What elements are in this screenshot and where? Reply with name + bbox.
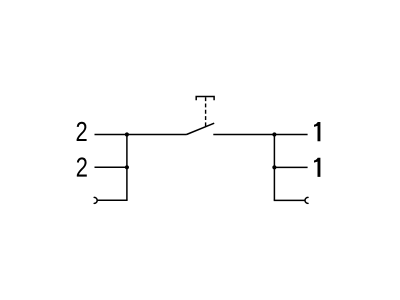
wire: left vertical bus	[126, 135, 128, 201]
pushbutton actuator	[196, 97, 214, 101]
pin label 2 (top left)	[77, 122, 87, 141]
wire: left second terminal lead	[95, 166, 127, 168]
socket terminal left (female contact)	[94, 197, 97, 203]
actuator link (dashed)	[205, 97, 207, 126]
junction: node at left bus / second wire	[125, 165, 129, 169]
wire: left bottom lead to socket	[97, 199, 127, 201]
wire: right bottom lead to socket	[274, 199, 305, 201]
pin label 1 (second right)	[314, 158, 320, 177]
wire: right top contact lead	[213, 134, 307, 136]
pin label 2 (second left)	[77, 157, 87, 176]
junction: node at left bus / top wire	[125, 132, 129, 136]
wire: right vertical bus	[273, 135, 275, 201]
junction: node at right bus / second wire	[272, 165, 276, 169]
junction: node at right bus / top wire	[272, 132, 276, 136]
switch S1 blade (NO contact)	[187, 123, 215, 134]
wire: left top contact lead	[95, 134, 187, 136]
socket terminal right (female contact)	[305, 197, 308, 203]
wire: right second terminal lead	[274, 166, 307, 168]
pin label 1 (top right)	[314, 122, 320, 141]
